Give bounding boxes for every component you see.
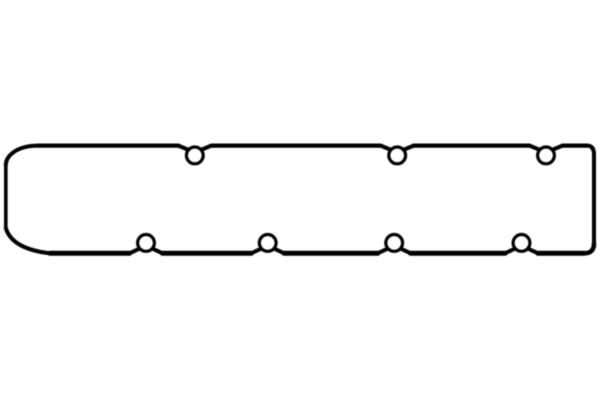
right edge xyxy=(592,155,596,244)
top edge segment B xyxy=(211,144,380,148)
bottom edge segment E xyxy=(50,251,130,256)
bottom right corner xyxy=(584,244,594,254)
bolt hole bottom 4 xyxy=(513,235,530,252)
top hole 1 left notch xyxy=(178,146,190,151)
bottom hole 3 right notch xyxy=(399,248,411,253)
bottom hole 2 left notch xyxy=(251,248,263,253)
top right corner xyxy=(587,146,594,155)
bolt hole top 1 xyxy=(186,147,203,164)
bottom hole 1 right notch xyxy=(151,248,163,253)
bolt hole top 3 xyxy=(538,147,555,164)
left edge xyxy=(4,165,8,228)
bottom left chamfer xyxy=(6,228,50,253)
top left corner xyxy=(6,146,38,165)
top hole 3 left notch xyxy=(530,146,542,151)
bottom edge segment D xyxy=(163,251,252,256)
top hole 1 right notch xyxy=(200,146,212,151)
bolt hole top 2 xyxy=(389,147,406,164)
bolt hole bottom 1 xyxy=(138,235,155,252)
top edge segment D xyxy=(563,144,588,148)
bottom hole 1 left notch xyxy=(130,248,142,253)
bottom hole 3 left notch xyxy=(378,248,390,253)
top edge segment A xyxy=(38,144,178,148)
bottom hole 4 right notch xyxy=(527,248,539,253)
top hole 3 right notch xyxy=(551,146,563,151)
top hole 2 left notch xyxy=(381,146,393,151)
bottom edge segment C xyxy=(284,251,378,256)
bolt hole bottom 3 xyxy=(386,235,403,252)
bottom edge segment B xyxy=(411,251,505,256)
bottom hole 4 left notch xyxy=(505,248,517,253)
bottom edge segment A xyxy=(538,251,584,256)
top edge segment C xyxy=(414,144,530,148)
bottom hole 2 right notch xyxy=(273,248,285,253)
top hole 2 right notch xyxy=(402,146,414,151)
bolt hole bottom 2 xyxy=(259,235,276,252)
